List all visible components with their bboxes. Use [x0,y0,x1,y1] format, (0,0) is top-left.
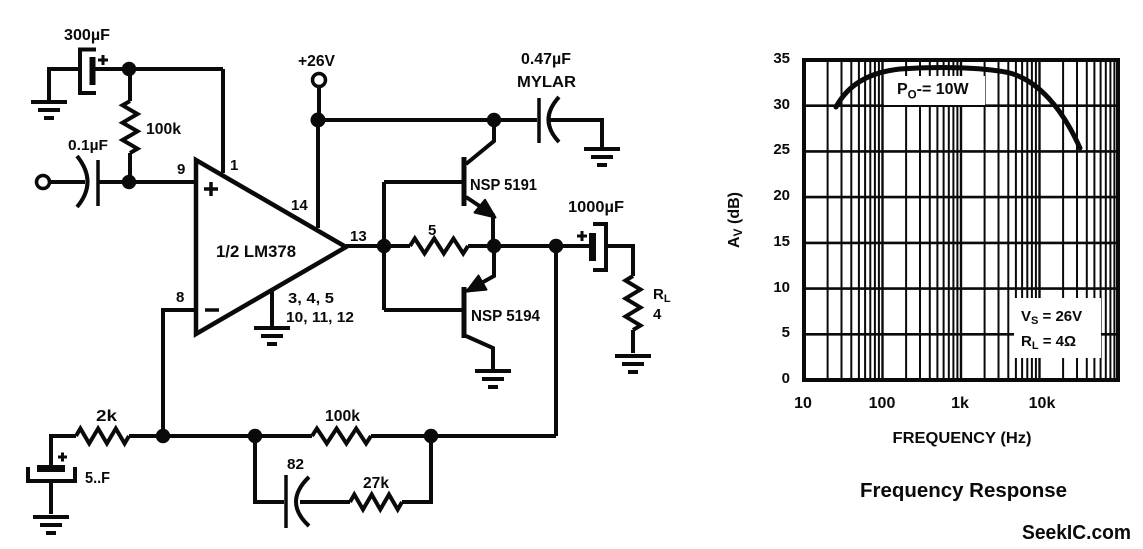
node: 100k feedback left junction [248,429,262,443]
wire: inverting input riser [163,310,196,436]
wire: C2 to op-amp + input [98,180,196,184]
ground below C1 [31,100,67,104]
svg-text:SeekIC.com: SeekIC.com [1022,522,1131,544]
svg-text:35: 35 [773,50,790,67]
svg-text:3, 4, 5: 3, 4, 5 [288,290,334,307]
wire: feedback bus left segment [163,434,312,438]
capacitor C1 300uF bar plate [90,57,96,85]
svg-text:15: 15 [773,233,790,250]
svg-text:9: 9 [177,161,185,178]
svg-text:0: 0 [782,370,790,387]
wire: lower branch left drop [255,436,284,502]
svg-text:100k: 100k [325,408,360,425]
node: 100k feedback right junction [424,429,438,443]
resistor R2 5 [410,239,468,254]
wire: 2k to C6 [51,436,76,466]
node: junction 100k / input [122,175,136,189]
svg-text:1: 1 [230,157,238,174]
wire: +26V rail to C3 [318,118,537,122]
svg-text:27k: 27k [363,475,389,492]
wire: C4 to RL [606,246,633,276]
svg-text:100: 100 [869,395,896,412]
svg-text:10, 11, 12: 10, 11, 12 [286,309,354,326]
capacitor C4 1000uF bracket plate [593,224,606,270]
capacitor C3 0.47uF straight plate [537,98,541,143]
svg-text:2k: 2k [96,408,117,425]
chart grid minor vertical lines [828,60,1115,380]
wire: C1 to ground [49,69,80,100]
svg-text:13: 13 [350,228,367,245]
capacitor C1 300uF bracket plate [80,50,96,94]
svg-text:82: 82 [287,456,304,473]
wire: op-amp ground stub [270,289,274,326]
wire: feedback vertical [554,246,558,436]
wire: input to C2 [50,180,85,184]
wire: op-amp output to node [346,244,384,248]
node: feedback/2k junction [156,429,170,443]
capacitor C2 0.1uF straight plate [96,160,100,206]
svg-text:25: 25 [773,141,790,158]
transistor Q2 NSP5194 base bar [462,287,467,338]
ground below op-amp [254,326,290,330]
ground below C6 [33,515,69,519]
svg-text:FREQUENCY (Hz): FREQUENCY (Hz) [893,430,1032,447]
node: emitters junction [487,239,501,253]
svg-text:VS = 26V: VS = 26V [1021,308,1082,327]
chart border [804,60,1118,380]
response curve [836,68,1080,148]
node: junction top rail / 100k [122,62,136,76]
capacitor C6 plus sign [58,453,67,462]
wire: output to C4 [494,244,590,248]
svg-text:+26V: +26V [298,53,335,70]
node: output junction pin13 [377,239,391,253]
wire: C6 to ground [49,481,53,514]
capacitor C2 0.1uF curved plate [77,156,88,207]
transistor Q2 emitter arrow [467,276,487,292]
label mask PO [884,76,985,105]
wire: +26V to rail [317,87,321,120]
svg-text:20: 20 [773,187,790,204]
transistor Q1 emitter arrow [475,200,496,218]
svg-text:100k: 100k [146,121,181,138]
capacitor C4 1000uF bar plate [589,233,596,261]
wire: pin 14 drop [316,120,320,228]
capacitor C3 0.47uF curved plate [549,97,560,142]
power terminal +26V [313,74,326,87]
transistor Q1 NSP5191 base bar [462,157,467,206]
node: feedback tap [549,239,563,253]
chart grid decade vertical lines [883,60,1040,380]
svg-text:0.47µF: 0.47µF [521,51,571,68]
resistor R4 2k [76,429,129,444]
capacitor C6 5uF bar plate [37,465,65,472]
svg-text:14: 14 [291,197,308,214]
wire: C5 to 27k [300,500,350,504]
svg-text:AV (dB): AV (dB) [726,192,745,248]
wire: 2k to junction [129,434,163,438]
svg-text:NSP 5194: NSP 5194 [471,308,540,325]
svg-text:5: 5 [428,222,436,239]
svg-text:1/2 LM378: 1/2 LM378 [216,242,296,261]
wire: lower branch right riser [402,436,431,502]
op-amp U1 triangle [196,160,346,334]
svg-text:1k: 1k [951,395,969,412]
svg-text:NSP 5191: NSP 5191 [470,177,537,194]
node: Q1 collector junction [487,113,501,127]
capacitor C6 5uF bracket plate [28,467,75,481]
svg-text:10k: 10k [1029,395,1056,412]
label mask VS RL box [1014,298,1101,358]
svg-text:4: 4 [653,306,662,323]
chart grid horizontal lines [804,106,1118,335]
transistor Q1 emitter lead [466,197,493,246]
resistor R1 100k [128,75,132,101]
transistor Q1 collector lead [466,120,494,164]
svg-text:300µF: 300µF [64,27,110,44]
op-amp plus input sign [204,182,218,196]
svg-text:RL = 4Ω: RL = 4Ω [1021,333,1076,352]
wire: top rail from C1 to pin-1 corner [95,67,223,71]
transistor Q2 emitter lead [467,246,494,291]
wire: C3 to ground [550,120,602,147]
svg-text:5: 5 [782,324,790,341]
wire: feedback bus right segment [371,434,556,438]
capacitor C1 plus sign [98,55,108,65]
resistor R5 100k [312,429,371,444]
capacitor C5 82 straight plate [284,475,288,528]
input terminal [37,176,50,189]
node: +26V rail junction [311,113,326,128]
ground below RL [615,354,651,358]
svg-text:8: 8 [176,289,184,306]
ground below Q2 [475,369,511,373]
capacitor C4 plus sign [577,231,587,241]
op-amp minus input sign [205,308,219,312]
ground below C3 [584,147,620,151]
svg-text:10: 10 [773,279,790,296]
wire: pin 1 drop to op-amp top edge [221,69,225,173]
svg-text:30: 30 [773,96,790,113]
svg-text:1000µF: 1000µF [568,199,624,216]
svg-text:5..F: 5..F [85,470,110,487]
svg-text:0.1µF: 0.1µF [68,137,108,154]
wire: Q2 base [384,308,462,312]
svg-text:10: 10 [794,395,812,412]
resistor R6 27k [350,495,402,510]
wire: Q1 base [384,180,462,184]
transistor Q2 collector lead [466,336,493,369]
capacitor C5 82 curved plate [296,477,309,526]
wire: base bus vertical [382,182,386,310]
svg-text:MYLAR: MYLAR [517,74,576,91]
resistor R3 RL [626,276,641,330]
svg-text:Frequency Response: Frequency Response [860,480,1067,502]
